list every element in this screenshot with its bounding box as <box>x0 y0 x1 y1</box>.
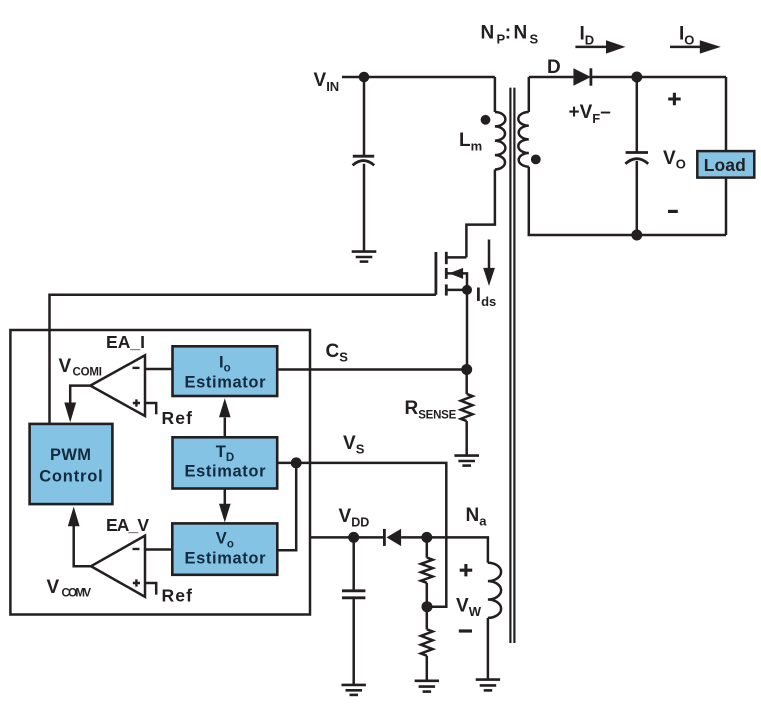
svg-text:EA_V: EA_V <box>106 515 149 535</box>
block TD Estimator <box>173 437 278 488</box>
arrow TD to Vo estimator <box>224 489 227 505</box>
svg-text:V: V <box>59 356 72 377</box>
svg-text:VIN: VIN <box>314 70 340 94</box>
wire MOSFET source to CS node <box>466 290 469 370</box>
diode D_aux <box>383 529 386 546</box>
node MOSFET source <box>462 285 472 295</box>
capacitor C_out <box>625 153 648 164</box>
wire input cap to ground <box>363 164 366 251</box>
ground divider <box>415 681 439 692</box>
node V_IN junction <box>359 72 370 83</box>
svg-text:RSENSE: RSENSE <box>405 398 457 422</box>
svg-text:PWM: PWM <box>50 446 91 464</box>
svg-text:IO: IO <box>679 24 694 48</box>
svg-text:Ref: Ref <box>162 586 193 606</box>
svg-text:Estimator: Estimator <box>185 462 267 480</box>
arrow TD to Io estimator <box>224 418 227 438</box>
svg-text:ID: ID <box>580 24 595 48</box>
svg-text:S: S <box>530 32 539 47</box>
transistor Q1 MOSFET <box>447 256 467 259</box>
block Io Estimator <box>173 346 278 396</box>
wire gate to PWM control <box>50 295 436 424</box>
wire V_IN rail <box>342 76 495 79</box>
svg-text:Lm: Lm <box>459 130 482 154</box>
label plus output <box>668 93 681 105</box>
wire load right side top <box>725 77 728 151</box>
svg-text:VO: VO <box>663 148 686 172</box>
wire TD output / V_S to divider <box>277 463 446 607</box>
node aux anode <box>421 532 432 543</box>
node output cap bottom <box>631 230 642 241</box>
wire CS node to R_SENSE <box>465 370 468 394</box>
svg-text:CS: CS <box>326 341 349 365</box>
wire diode cathode to output node <box>591 76 726 79</box>
transformer dot secondary <box>531 155 541 165</box>
svg-text:Load: Load <box>704 155 746 175</box>
ground input cap <box>352 252 377 262</box>
wire V_DD <box>310 536 384 539</box>
transformer secondary winding <box>528 77 531 112</box>
wire R_SENSE to ground <box>465 421 468 455</box>
svg-text::: : <box>505 23 511 44</box>
label minus output <box>668 210 678 213</box>
node C_S junction <box>461 364 472 375</box>
ground R_SENSE <box>454 456 479 466</box>
wire output node down to cap <box>636 77 639 152</box>
svg-text:D: D <box>547 57 561 78</box>
svg-text:VW: VW <box>456 596 482 620</box>
controller outline box <box>10 330 310 615</box>
block Vo Estimator <box>172 523 277 574</box>
wire Vo estimator link <box>277 463 296 550</box>
wire EA_I inverting input <box>145 368 173 371</box>
wire aux anode to winding <box>401 537 488 562</box>
resistor R_SENSE <box>461 394 473 421</box>
wire secondary bottom rail <box>529 167 726 235</box>
svg-text:Ref: Ref <box>162 408 193 428</box>
svg-text:V: V <box>47 577 60 598</box>
wire output cap to bottom rail <box>636 161 639 235</box>
capacitor C_vdd <box>352 537 355 590</box>
resistor divider upper R1 <box>426 537 429 557</box>
node TD output <box>291 457 302 468</box>
svg-text:Estimator: Estimator <box>185 549 267 567</box>
wire EA_I ref stub <box>145 403 156 414</box>
resistor divider lower R2 <box>426 607 429 630</box>
op-amp EA_I <box>90 355 145 416</box>
wire load right side bottom <box>725 178 728 235</box>
load box <box>697 151 754 178</box>
wire C_S <box>277 368 467 371</box>
ground C_vdd <box>342 685 366 695</box>
transformer core <box>510 88 514 643</box>
svg-text:Na: Na <box>466 505 488 529</box>
svg-text:COMI: COMI <box>73 367 103 379</box>
winding Na auxiliary <box>488 563 501 618</box>
svg-text:COMV: COMV <box>62 588 92 600</box>
svg-text:+VF–: +VF– <box>569 102 611 126</box>
svg-text:Estimator: Estimator <box>185 373 267 391</box>
arrow I_D <box>575 46 607 49</box>
svg-text:Ids: Ids <box>476 285 496 309</box>
wire EA_V inverting input <box>145 548 172 551</box>
svg-text:VS: VS <box>343 433 365 457</box>
transformer dot primary <box>481 115 491 125</box>
wire secondary top to diode D <box>529 76 574 79</box>
svg-text:Control: Control <box>39 468 102 486</box>
svg-text:VDD: VDD <box>339 506 370 530</box>
svg-text:EA_I: EA_I <box>106 332 145 352</box>
op-amp EA_V <box>91 536 145 597</box>
label plus aux <box>460 564 473 576</box>
transformer T1 primary winding Lm <box>494 77 497 112</box>
wire V_IN node to input cap <box>363 77 366 155</box>
arrow I_ds <box>488 240 491 269</box>
wire EA_V ref stub <box>145 583 156 595</box>
ground aux winding <box>476 680 500 691</box>
svg-text:N: N <box>481 23 495 44</box>
wire primary winding to MOSFET drain (jog) <box>466 170 495 258</box>
wire EA_I output to PWM <box>70 386 90 403</box>
label minus aux <box>459 629 472 632</box>
wire EA_V output to PWM <box>74 526 91 566</box>
node V_DD <box>348 532 359 543</box>
node divider mid <box>422 601 433 612</box>
arrow I_O <box>670 46 701 49</box>
node output cap top <box>631 72 642 83</box>
svg-text:N: N <box>514 23 528 44</box>
capacitor C_in <box>353 156 375 165</box>
block PWM Control <box>30 424 113 504</box>
diode D <box>573 68 591 85</box>
